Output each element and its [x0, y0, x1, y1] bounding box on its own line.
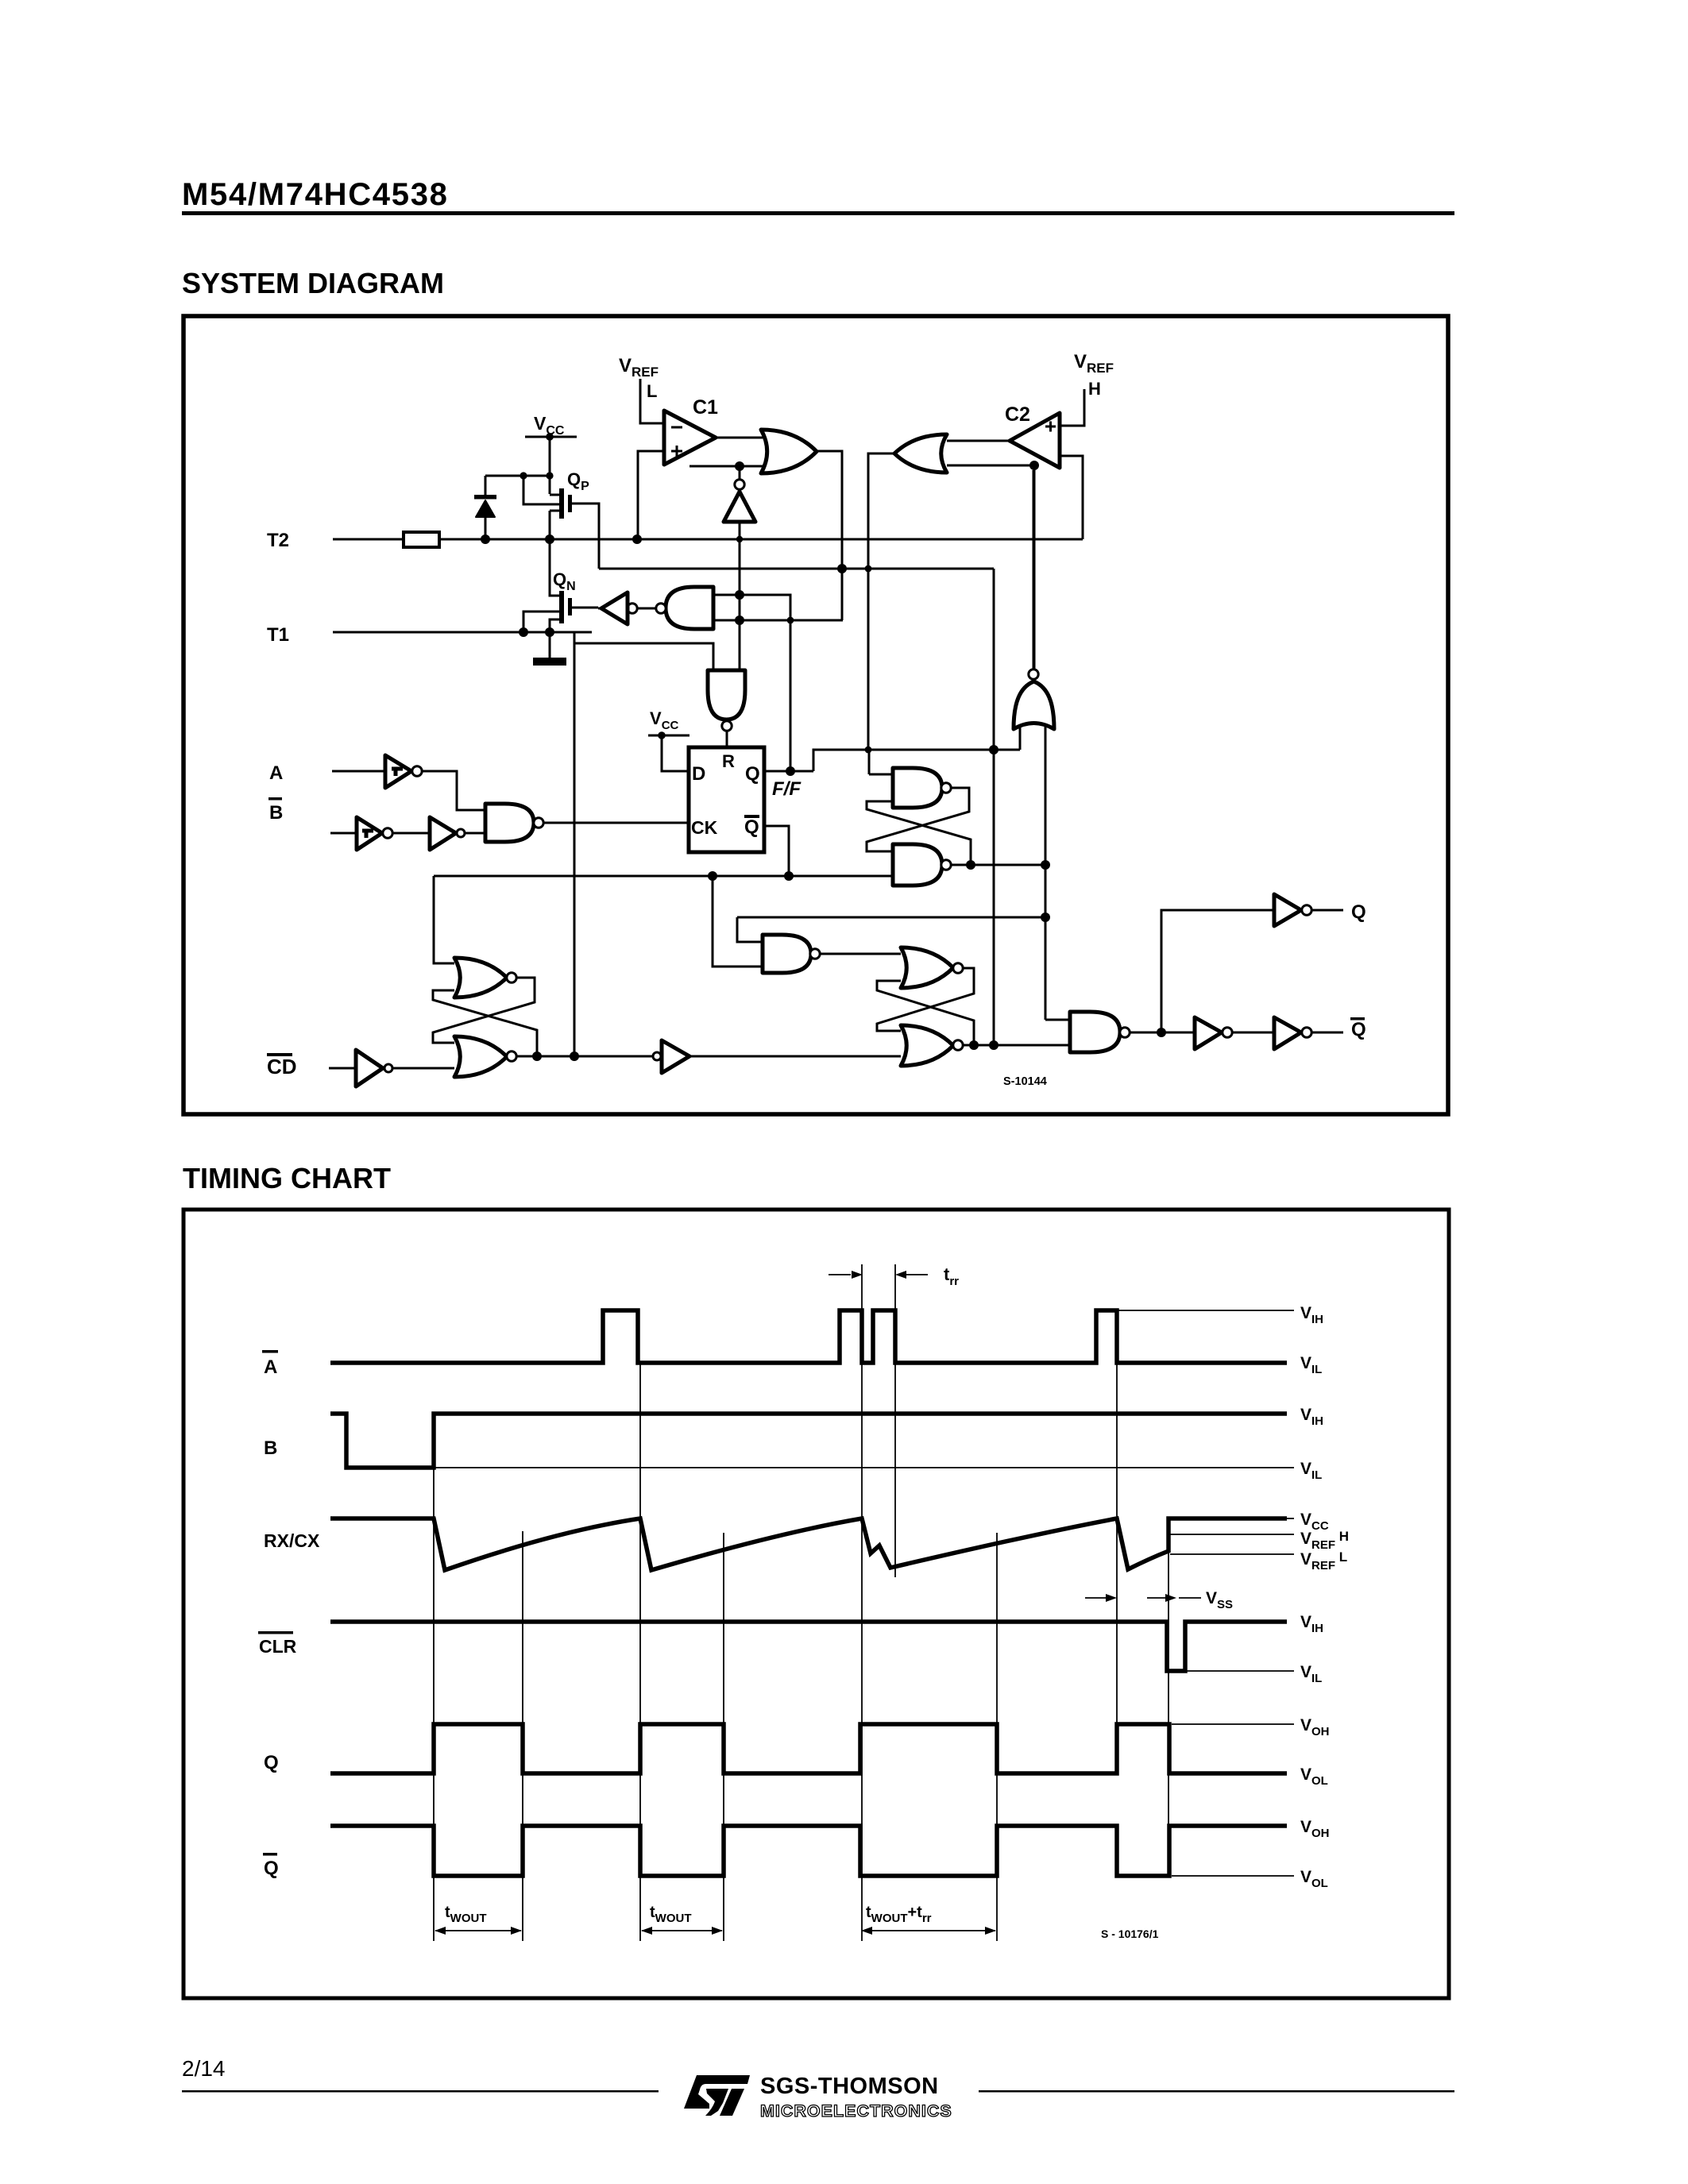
svg-text:Q: Q [264, 1858, 279, 1879]
svg-text:C1: C1 [693, 396, 718, 419]
wire FF Qbar output [764, 826, 789, 876]
junction Q-OR1 column [786, 766, 795, 776]
grid line x911 [723, 1533, 724, 1941]
nor gate NR2 (bottom) [901, 1025, 953, 1066]
SGS-Thomson ST logo [684, 2075, 750, 2116]
svg-text:H: H [1088, 379, 1101, 399]
wire mid bus (QP gate net) [599, 568, 994, 570]
svg-text:T1: T1 [267, 624, 289, 646]
svg-text:CLR: CLR [259, 1636, 297, 1657]
svg-text:S - 10176/1: S - 10176/1 [1101, 1927, 1159, 1940]
svg-text:C2: C2 [1005, 403, 1030, 426]
wire B input [330, 832, 357, 835]
junction Q branch [1157, 1028, 1166, 1037]
wire NL2 output [951, 864, 1045, 866]
comparator C2 [1010, 413, 1060, 468]
svg-text:SYSTEM DIAGRAM: SYSTEM DIAGRAM [182, 267, 444, 299]
svg-text:CD: CD [267, 1055, 297, 1078]
junction T2-C1 plus [632, 534, 642, 544]
wire QP gate to mid bus [572, 504, 599, 569]
comparator C1 [664, 411, 716, 465]
wire diode top to gate node [485, 475, 550, 477]
wire NL1 output cross [867, 788, 969, 851]
buffer BUF1 (middle) [653, 1052, 661, 1060]
svg-text:R: R [722, 751, 735, 771]
diode D1 [485, 476, 487, 497]
level line VOL Qbar [1172, 1875, 1294, 1877]
wire Q branch to NAND latch [868, 750, 871, 774]
junction y1155 on col [1041, 913, 1050, 922]
grid line x1085 [861, 1264, 863, 1941]
grid line x1471 [1168, 1550, 1169, 1877]
junction VCC [546, 433, 554, 441]
junction T2-diode [481, 534, 490, 544]
svg-text:T2: T2 [267, 530, 289, 551]
wire BUF1 output to NR2 [689, 1055, 901, 1058]
junction NL2 out [966, 860, 975, 870]
wire NG3 upper input [737, 917, 763, 942]
svg-text:CK: CK [691, 817, 718, 838]
junction inv column upper [735, 590, 744, 600]
nor gate NQ1 (top) [454, 958, 507, 997]
grid line x658 [522, 1531, 523, 1941]
dimension tWOUT 2 [642, 1930, 722, 1931]
system diagram frame [183, 316, 1448, 1114]
wire Q up and right [813, 750, 1020, 771]
inverter INV8 (Q) [1274, 894, 1301, 926]
nand gate NG3 (middle) [763, 935, 811, 973]
svg-text:B: B [269, 802, 283, 824]
level line VCC [1287, 1518, 1294, 1519]
junction mid bus bottom [989, 1040, 999, 1050]
wire INV5 to BUF2 [392, 832, 430, 835]
svg-text:Q: Q [1351, 901, 1366, 923]
svg-text:MICROELECTRONICS: MICROELECTRONICS [760, 2101, 952, 2120]
grid line x546 [433, 1415, 435, 1941]
wire T2 to QN drain [550, 539, 559, 596]
wire Q out [1311, 909, 1343, 912]
junction T2-inv column [736, 536, 743, 542]
wire C2 minus input [1061, 456, 1083, 539]
junction T2-QP drain [545, 534, 554, 544]
waveform B [330, 1414, 1287, 1468]
junction VCC mid [658, 731, 666, 739]
wire T1 to ground [549, 632, 551, 658]
waveform A-bar [330, 1310, 1287, 1363]
wire NG3 lower input [713, 876, 763, 967]
waveform CLR-bar [330, 1622, 1287, 1671]
svg-text:TIMING CHART: TIMING CHART [183, 1162, 391, 1194]
wire NG2 to R pin [726, 731, 728, 747]
svg-text:RX/CX: RX/CX [264, 1530, 320, 1551]
wire net y1155 [737, 916, 1045, 919]
wire INV1 input column [739, 522, 741, 670]
ground symbol [533, 658, 566, 666]
junction T1 source [545, 627, 554, 637]
wire to down-NAND left input [574, 643, 713, 670]
wire NR2 output [963, 1044, 1070, 1047]
wire NQ2 cross to NQ1 [433, 990, 537, 1056]
nand gate NG1 (left facing) [666, 587, 713, 629]
wire NG1 to INV2 [637, 608, 656, 610]
junction NG1 riser [787, 617, 794, 624]
dimension tWOUT 1 [435, 1930, 521, 1931]
wire T1 bus [333, 631, 592, 634]
grid line x1406 [1116, 1312, 1118, 1725]
grid line x1255 [996, 1533, 998, 1941]
level line VOH Q [1172, 1723, 1294, 1725]
svg-text:M54/M74HC4538: M54/M74HC4538 [182, 177, 449, 212]
level line VIH A [1117, 1310, 1294, 1311]
svg-text:Q: Q [745, 763, 760, 785]
buffer BUF2 (B) [430, 817, 456, 850]
junction Qbar on latch net [784, 871, 794, 881]
junction inverter-OR1 [735, 461, 744, 471]
wire OR2 lower input [947, 465, 1034, 467]
wire NL2 cross to NL1 [867, 801, 971, 865]
inverter INV2 (to QN gate) [628, 604, 637, 613]
inverter INV1 (feedback up) [735, 480, 744, 489]
footer rule right [979, 2090, 1454, 2093]
wire VREF L to C1 [640, 379, 666, 423]
wire Q branch up [1161, 910, 1274, 1032]
VCC mid stub [648, 735, 689, 737]
wire mid bus down right [993, 569, 995, 1045]
transistor QP (PMOS) [559, 488, 564, 519]
wire VCC to QP source [549, 437, 551, 494]
or-gate OR1 [761, 430, 817, 473]
wire OR2 output down [868, 453, 894, 750]
wire NG1 lower input [713, 619, 843, 622]
svg-text:Q: Q [1351, 1019, 1366, 1040]
wire QN gate to inverter [572, 607, 598, 609]
junction diode-gate L [520, 472, 527, 479]
junction mid bus Q line [989, 745, 999, 754]
nand gate NG4 (A.B) [485, 804, 534, 842]
waveform Q [330, 1724, 1287, 1773]
junction on VCC drop [546, 472, 553, 479]
dimension t rr [829, 1274, 851, 1275]
wire NG4 to CK [543, 822, 689, 824]
junction NQ2 out [532, 1051, 542, 1061]
svg-text:Q: Q [264, 1752, 279, 1773]
wire QN source to T1 [550, 619, 559, 632]
wire INV6-INV7 [1232, 1032, 1274, 1034]
wire A to NAND [421, 771, 485, 810]
or-gate OR2 (mirrored) [894, 434, 947, 473]
wire A input [332, 770, 385, 773]
wire NQ1 output cross [433, 978, 535, 1043]
grid line x806 [639, 1364, 641, 1941]
wire VREF H to C2 plus [1061, 389, 1084, 426]
nor gate NQ2 (bottom) [454, 1036, 507, 1077]
wire NU1 right input column [1045, 727, 1047, 1020]
resistor R1 [404, 532, 439, 547]
inverter INV7 (Qbar 2) [1274, 1017, 1301, 1049]
wire set net to NOR latch [434, 876, 454, 963]
wire latch set net (y1103) [434, 875, 893, 878]
svg-text:S-10144: S-10144 [1003, 1075, 1047, 1088]
wire QN bulk from T1 node [523, 612, 559, 632]
svg-text:2/14: 2/14 [182, 2056, 226, 2081]
wire OR1 output [817, 451, 842, 620]
wire NG5 output [1130, 1032, 1195, 1034]
wire NG1 upper input [713, 595, 790, 771]
wire NR1 output cross [877, 968, 974, 1031]
svg-text:L: L [647, 381, 657, 401]
inverter INV5 (B, schmitt) [357, 817, 382, 850]
VCC rail stub [525, 436, 577, 438]
svg-text:B: B [264, 1437, 277, 1459]
nand gate NG2 (pointing down) [708, 670, 745, 720]
wire NL1 top input [869, 774, 893, 776]
svg-text:F/F: F/F [772, 778, 802, 800]
wire VCC to D input [662, 735, 689, 771]
level line VIL CLR [1185, 1670, 1294, 1672]
wire T1 column down [574, 632, 576, 1056]
svg-text:A: A [269, 762, 283, 784]
wire QP drain to T2 [549, 511, 551, 539]
level line VREF L [1170, 1553, 1294, 1555]
wire Qbar out [1311, 1032, 1343, 1034]
inverter INV4 (A, schmitt) [385, 755, 411, 788]
wire C2 minus to T2 bus [1061, 455, 1083, 457]
svg-text:SGS-THOMSON: SGS-THOMSON [760, 2074, 939, 2099]
wire T2 to resistor [333, 538, 404, 541]
junction set net to NG3 [708, 871, 717, 881]
waveform RX/CX [330, 1518, 1287, 1570]
grid line x1127 [894, 1264, 896, 1577]
nand gate NL2 (latch bottom) [893, 844, 942, 886]
inverter INV3 (CD) [356, 1050, 383, 1086]
junction NL2 out on col [1041, 860, 1050, 870]
header rule [182, 211, 1454, 215]
svg-text:A: A [264, 1356, 277, 1378]
wire T2 bus [439, 538, 1083, 541]
junction NR2 out [969, 1040, 979, 1050]
wire C1 output to OR1 [716, 437, 763, 439]
wire NOR feedback column [1033, 465, 1036, 669]
wire NU1 left input [1019, 727, 1022, 750]
junction T1 column bottom [570, 1051, 579, 1061]
wire NU1 output up [1033, 470, 1035, 669]
wire NG3 output to NOR latch [820, 953, 901, 955]
inverter INV6 (Qbar 1) [1195, 1017, 1222, 1049]
wire NR2 cross to NR1 [877, 981, 974, 1045]
flip-flop F/F box [689, 747, 764, 852]
wire CD input [329, 1067, 356, 1070]
nand gate NG5 (output) [1070, 1012, 1120, 1052]
wire OR1 lower input [689, 465, 763, 468]
wire INV3 out [392, 1067, 454, 1070]
wire OR2 top input [947, 440, 1008, 442]
nand gate NL1 (latch top) [893, 768, 942, 808]
wire QP bulk from diode node [523, 476, 559, 504]
wire C1 plus input [638, 451, 666, 539]
junction inv column lower [735, 615, 744, 625]
level line VIL B [434, 1467, 1294, 1468]
junction OR1 out on mid bus [837, 564, 847, 573]
wire col to final NAND [1045, 1019, 1070, 1021]
nor gate NR1 (top) [901, 947, 953, 988]
svg-text:D: D [692, 763, 705, 785]
svg-text:Q: Q [744, 816, 759, 838]
footer rule left [182, 2090, 659, 2093]
waveform Q-bar [330, 1826, 1287, 1876]
junction OR2 out on mid bus [865, 565, 872, 573]
wire NQ2 output [516, 1055, 652, 1058]
junction Q line OR2 col [865, 747, 872, 754]
level line VREF H [1170, 1534, 1294, 1535]
junction OR2-NOR feedback [1029, 461, 1039, 470]
transistor QN (NMOS) [559, 591, 564, 623]
dimension VSS [1085, 1597, 1106, 1599]
junction T1 gate [519, 627, 528, 637]
timing chart frame [183, 1210, 1449, 1998]
wire FF Q output [764, 770, 813, 773]
dimension tWOUT+trr [862, 1930, 995, 1931]
nor gate NU1 (pointing up) [1014, 681, 1054, 729]
wire BUF2 to NAND [465, 832, 485, 835]
